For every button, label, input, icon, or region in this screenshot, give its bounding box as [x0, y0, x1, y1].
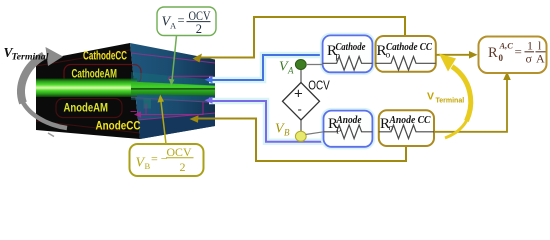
red highlight around CathodeAM label [64, 65, 141, 85]
layer line dark red top (black face) [36, 50, 130, 66]
svg-text:-: - [298, 102, 302, 117]
wire violet AnodeAM to Rp anode box (glow) [209, 101, 324, 142]
node VB [295, 131, 306, 141]
resistor box Ro Anode CC [379, 110, 434, 146]
svg-text:Cathode CC: Cathode CC [386, 42, 432, 53]
svg-text:CathodeAM: CathodeAM [72, 67, 118, 81]
svg-text:V: V [427, 90, 434, 102]
separator green band on blue face [131, 82, 215, 96]
wire blue CathodeAM to Rp cathode box (glow) [209, 55, 322, 80]
wire VA node to Rp cathode [306, 64, 323, 66]
wire violet AnodeAM to Rp anode box [205, 97, 324, 142]
resistor Ro cathode CC zigzag [376, 57, 436, 71]
svg-text:1: 1 [527, 39, 533, 53]
svg-text:OCV: OCV [167, 145, 192, 159]
wire olive CathodeCC to Ro cathode box [193, 17, 406, 63]
magenta annotation arrow CathodeAM [168, 76, 213, 80]
svg-text:A: A [536, 52, 545, 66]
teal band above separator (blue face) [131, 72, 215, 86]
yellow terminal-voltage arc arrow [439, 54, 471, 139]
separator green band on black face [36, 79, 137, 98]
formula box R0 = (1/sigma)(l/A) [479, 37, 547, 74]
svg-text:+: + [294, 85, 303, 102]
svg-text:σ: σ [526, 52, 533, 66]
wire arrow Ro cathode CC to formula box [436, 51, 478, 59]
svg-text:A: A [287, 66, 294, 76]
svg-text:CathodeCC: CathodeCC [83, 49, 127, 63]
svg-text:B: B [284, 128, 290, 138]
svg-text:Terminal: Terminal [436, 98, 465, 105]
wire blue CathodeAM to Rp cathode box [205, 55, 323, 83]
resistor box Ro Cathode CC [376, 36, 436, 72]
callout box VA = OCV/2 [157, 7, 216, 86]
svg-text:AnodeCC: AnodeCC [96, 119, 141, 133]
svg-text:= −: = − [151, 152, 168, 166]
resistor Rp cathode zigzag [323, 57, 373, 71]
svg-text:=: = [515, 44, 522, 59]
svg-text:AnodeAM: AnodeAM [64, 101, 109, 115]
layer boundary magenta CathodeCC/AM (blue face) [131, 53, 215, 63]
svg-text:OCV: OCV [308, 78, 330, 93]
wire arrow Ro anode CC to formula box [434, 72, 511, 132]
resistor Rp anode zigzag [324, 125, 373, 139]
resistor box Rp Anode [324, 111, 373, 147]
svg-text:Cathode: Cathode [336, 42, 366, 53]
svg-text:OCV: OCV [189, 9, 211, 23]
svg-text:2: 2 [196, 22, 202, 36]
battery right blue face [130, 43, 215, 139]
layer line dark red bottom (black face) [36, 121, 140, 133]
svg-text:B: B [145, 161, 151, 171]
node VA [295, 60, 306, 70]
teal band below separator (blue face) [131, 95, 215, 103]
svg-text:2: 2 [180, 160, 186, 174]
gray current arrow [21, 47, 67, 137]
svg-text:Anode CC: Anode CC [389, 115, 431, 126]
teal tab mark [144, 99, 152, 109]
svg-text:0: 0 [499, 53, 504, 63]
diamond source body [283, 83, 320, 121]
red highlight around AnodeAM label [56, 99, 122, 118]
battery front black face [36, 43, 140, 139]
battery cell stack [36, 43, 215, 139]
svg-text:A,C: A,C [499, 41, 514, 51]
svg-text:Terminal: Terminal [12, 51, 49, 61]
wire VB node to Rp anode [306, 132, 324, 135]
svg-text:R: R [488, 45, 498, 61]
svg-text:A: A [170, 21, 177, 31]
resistor Ro anode CC zigzag [379, 125, 434, 139]
anodeCC dark band on blue face [138, 113, 215, 139]
layer boundary magenta separator/AnodeAM (blue face) [131, 98, 215, 103]
dependent source OCV [283, 65, 331, 137]
magenta tick marks [145, 104, 147, 115]
wire olive AnodeCC to Ro anode box [190, 115, 407, 161]
magenta annotation arrow AnodeAM [139, 102, 203, 115]
callout line VA box to cathode side of separator [172, 36, 177, 81]
callout line VB box to anode side of separator [161, 100, 166, 144]
resistor box Rp Cathode [323, 35, 373, 72]
wire node VA to diamond [300, 65, 302, 84]
callout box VB = -OCV/2 [130, 95, 204, 177]
svg-text:=: = [178, 14, 185, 28]
wire diamond to node VB [300, 120, 302, 136]
layer boundary magenta AnodeAM/CC (blue face) [138, 113, 215, 120]
